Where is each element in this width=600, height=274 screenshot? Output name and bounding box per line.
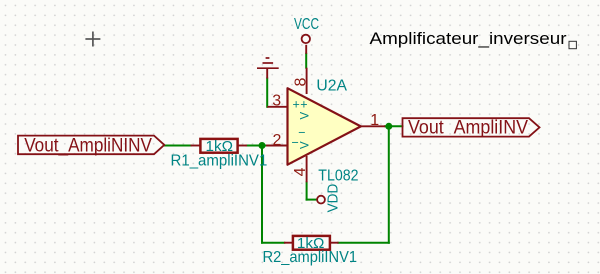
- svg-text:+: +: [300, 98, 307, 112]
- svg-text:V: V: [300, 141, 312, 149]
- svg-text:+: +: [293, 98, 300, 112]
- svg-text:1: 1: [370, 112, 379, 129]
- svg-text:Vout_AmpliINV: Vout_AmpliINV: [408, 117, 528, 138]
- svg-text:4: 4: [292, 167, 309, 176]
- svg-text:−: −: [298, 126, 305, 140]
- svg-text:VCC: VCC: [294, 16, 319, 33]
- svg-text:V: V: [300, 112, 312, 120]
- svg-text:Amplificateur_inverseur: Amplificateur_inverseur: [370, 29, 567, 48]
- svg-text:TL082: TL082: [318, 167, 358, 184]
- svg-text:R2_ampliINV1: R2_ampliINV1: [263, 249, 358, 266]
- svg-text:8: 8: [292, 78, 309, 87]
- svg-text:2: 2: [273, 132, 282, 149]
- svg-text:Vout_AmpliNINV: Vout_AmpliNINV: [24, 135, 152, 156]
- svg-text:VDD: VDD: [325, 184, 342, 213]
- svg-text:3: 3: [272, 93, 281, 110]
- svg-text:R1_ampliINV1: R1_ampliINV1: [171, 152, 268, 169]
- svg-text:U2A: U2A: [316, 77, 347, 94]
